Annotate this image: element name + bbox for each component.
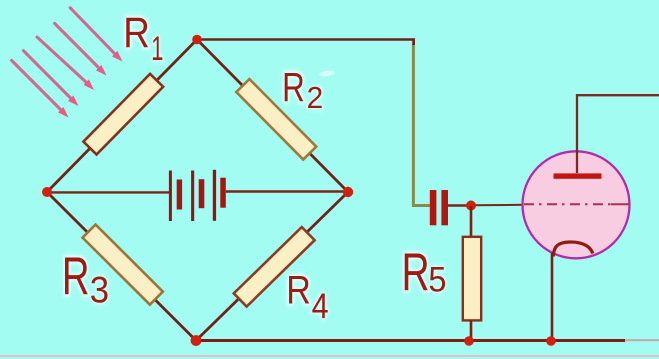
wire: bridge side top-right (R2 branch) (197, 40, 348, 193)
svg-text:3: 3 (90, 270, 109, 311)
node: grid junction (466, 201, 476, 211)
wire: capacitor to grid node (448, 204, 471, 206)
tube V1 cathode (553, 242, 593, 257)
tube V1 envelope (523, 151, 630, 258)
wire: bridge side bottom-left (R3 branch) (47, 192, 196, 341)
wire: cathode lead down (551, 253, 554, 341)
battery B1 (3 cells) (169, 170, 226, 221)
label R2 (282, 64, 305, 110)
wire: bridge side top-left (R1 branch) (47, 40, 197, 193)
wire: plate lead up (577, 95, 659, 173)
node: bridge top (192, 35, 202, 45)
svg-text:2: 2 (307, 81, 324, 114)
resistor R1 (photoresistor body) (83, 74, 163, 155)
capacitor C1 (430, 190, 448, 225)
svg-text:R: R (286, 267, 311, 312)
wire: bridge side bottom-right (R4 branch) (196, 192, 348, 341)
node: bridge right (343, 187, 353, 197)
node: cathode ground junction (546, 336, 556, 346)
wire: R5 to ground rail (470, 320, 473, 341)
light arrows (12, 8, 123, 118)
svg-text:1: 1 (151, 30, 163, 68)
node: bridge bottom (191, 335, 202, 346)
wire: grid node to tube (471, 204, 524, 207)
svg-text:4: 4 (312, 287, 329, 327)
white smudge artifact (319, 70, 336, 78)
wire: grid node down to R5 (470, 206, 473, 237)
wire: left node to battery (47, 191, 169, 193)
node: bridge left (42, 187, 52, 197)
wire: top node to corner (anode rail) (197, 38, 415, 41)
svg-text:R: R (123, 9, 150, 56)
label R3 (62, 246, 90, 305)
wire: battery to right node (226, 190, 348, 192)
svg-text:R: R (402, 242, 430, 301)
label R4 (286, 267, 311, 312)
node: R5 ground junction (464, 336, 474, 346)
label R1 (123, 9, 150, 56)
svg-text:5: 5 (428, 260, 446, 299)
wire: rail faded end (625, 339, 659, 341)
resistor R3 body (83, 225, 163, 305)
tube V1 anode plate (554, 173, 602, 178)
svg-text:R: R (282, 64, 305, 110)
resistor R2 body (236, 79, 316, 159)
tube V1 grid (dash-dot) (524, 203, 611, 205)
wire: bottom ground rail (196, 339, 625, 342)
svg-text:R: R (62, 246, 90, 305)
label R5 (402, 242, 430, 301)
wire: vertical drop to capacitor (olive) (413, 44, 430, 206)
resistor R4 body (234, 227, 315, 307)
resistor R5 body (463, 237, 481, 321)
pink baseline (0, 355, 659, 357)
